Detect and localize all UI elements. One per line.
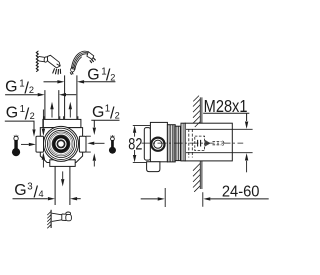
svg-text:G: G xyxy=(5,79,17,96)
wall outlet elbow icon xyxy=(47,210,71,229)
dim 24-60 arrows xyxy=(141,197,269,200)
right port xyxy=(79,136,86,152)
label G 3/4 xyxy=(14,182,43,202)
dimension bottom pipe G3/4 (y 198.4) xyxy=(13,197,81,200)
threaded tube xyxy=(185,123,232,161)
label 24-60 xyxy=(222,183,260,200)
leader from lower-left G1/2 to port xyxy=(5,121,36,137)
label M28x1 xyxy=(204,97,248,117)
label G 1/2 lower left xyxy=(6,104,35,123)
center line xyxy=(142,142,244,144)
flow arrow into left port xyxy=(21,143,36,146)
label G 1/2 top right xyxy=(87,66,115,84)
flange ring xyxy=(181,123,185,161)
side port circle xyxy=(151,138,164,151)
ribbed collar xyxy=(167,125,181,162)
wall shower head icon xyxy=(36,51,61,75)
side flange plate xyxy=(144,128,150,161)
svg-text:G: G xyxy=(87,66,99,83)
dim 82 arrows xyxy=(133,125,136,162)
hidden spline (dashed) xyxy=(189,129,193,158)
svg-text:24-60: 24-60 xyxy=(222,183,260,200)
wall hatch lower xyxy=(193,161,202,192)
svg-text:G: G xyxy=(6,105,18,122)
hand shower icon xyxy=(70,51,95,75)
right thermometer xyxy=(109,135,116,154)
right port lower arrow xyxy=(93,153,96,166)
svg-text:2: 2 xyxy=(29,85,34,95)
label G 1/2 right of valve xyxy=(92,104,120,123)
dimension right pipe G1/2 (y 82.4) xyxy=(44,80,116,83)
flow arrow up left pipe xyxy=(50,102,53,118)
svg-text:82: 82 xyxy=(128,136,142,154)
valve mid body octagon xyxy=(40,128,82,163)
left supply pipe xyxy=(45,90,59,119)
right port ext lines xyxy=(86,136,91,152)
flow arrow into right port xyxy=(87,142,104,145)
pipe base collars xyxy=(44,116,78,119)
side main block xyxy=(150,122,167,161)
front circles (cover plate) xyxy=(44,126,79,161)
dim 82 ext lines xyxy=(133,125,150,162)
hidden spindle (dashed) xyxy=(195,136,224,151)
M28x1 leader xyxy=(203,113,249,172)
svg-text:2: 2 xyxy=(30,111,35,121)
dimension left pipe G1/2 (y 94.6) xyxy=(5,93,76,96)
flow arrow down bottom pipe xyxy=(61,171,64,186)
svg-text:G: G xyxy=(14,182,26,199)
left port dimension arrows xyxy=(42,110,45,168)
wall hatch upper xyxy=(193,96,202,127)
thread minor lines xyxy=(186,129,253,152)
svg-text:2: 2 xyxy=(115,110,120,120)
leader from right G1/2 down xyxy=(91,120,119,135)
svg-text:2: 2 xyxy=(110,72,115,82)
left thermometer xyxy=(12,135,20,157)
dim 24-60 ext lines xyxy=(165,188,203,207)
label 82 xyxy=(128,136,142,154)
svg-text:3: 3 xyxy=(27,182,32,193)
dark hub rings xyxy=(52,135,71,154)
label G 1/2 upper left xyxy=(5,79,34,98)
flow arrow up right pipe xyxy=(69,102,72,118)
svg-text:4: 4 xyxy=(39,189,44,199)
side bottom stub xyxy=(147,162,160,172)
bottom block xyxy=(50,160,75,167)
bottom outlet pipe xyxy=(55,166,70,205)
left port xyxy=(36,136,44,152)
svg-text:G: G xyxy=(92,104,104,121)
valve top plate xyxy=(43,119,81,127)
right supply pipe xyxy=(65,75,77,119)
